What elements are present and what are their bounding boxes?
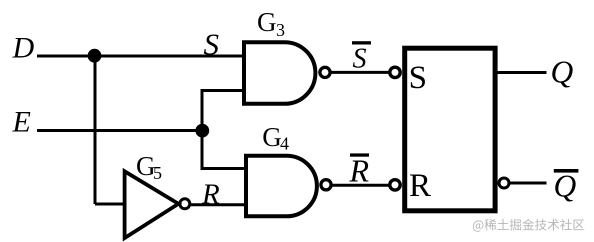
- svg-text:R: R: [201, 178, 220, 210]
- svg-text:R: R: [349, 152, 370, 188]
- svg-text:R: R: [409, 168, 431, 204]
- svg-text:Q: Q: [551, 54, 574, 89]
- svg-text:E: E: [12, 106, 31, 139]
- svg-text:S: S: [204, 26, 220, 61]
- svg-text:S: S: [409, 60, 427, 96]
- svg-text:4: 4: [280, 134, 289, 154]
- svg-text:G: G: [262, 122, 282, 152]
- svg-text:D: D: [12, 31, 35, 64]
- svg-text:5: 5: [153, 163, 162, 183]
- svg-text:3: 3: [276, 20, 285, 40]
- svg-text:Q: Q: [554, 168, 577, 203]
- svg-text:S: S: [353, 43, 367, 74]
- svg-text:G: G: [257, 7, 277, 37]
